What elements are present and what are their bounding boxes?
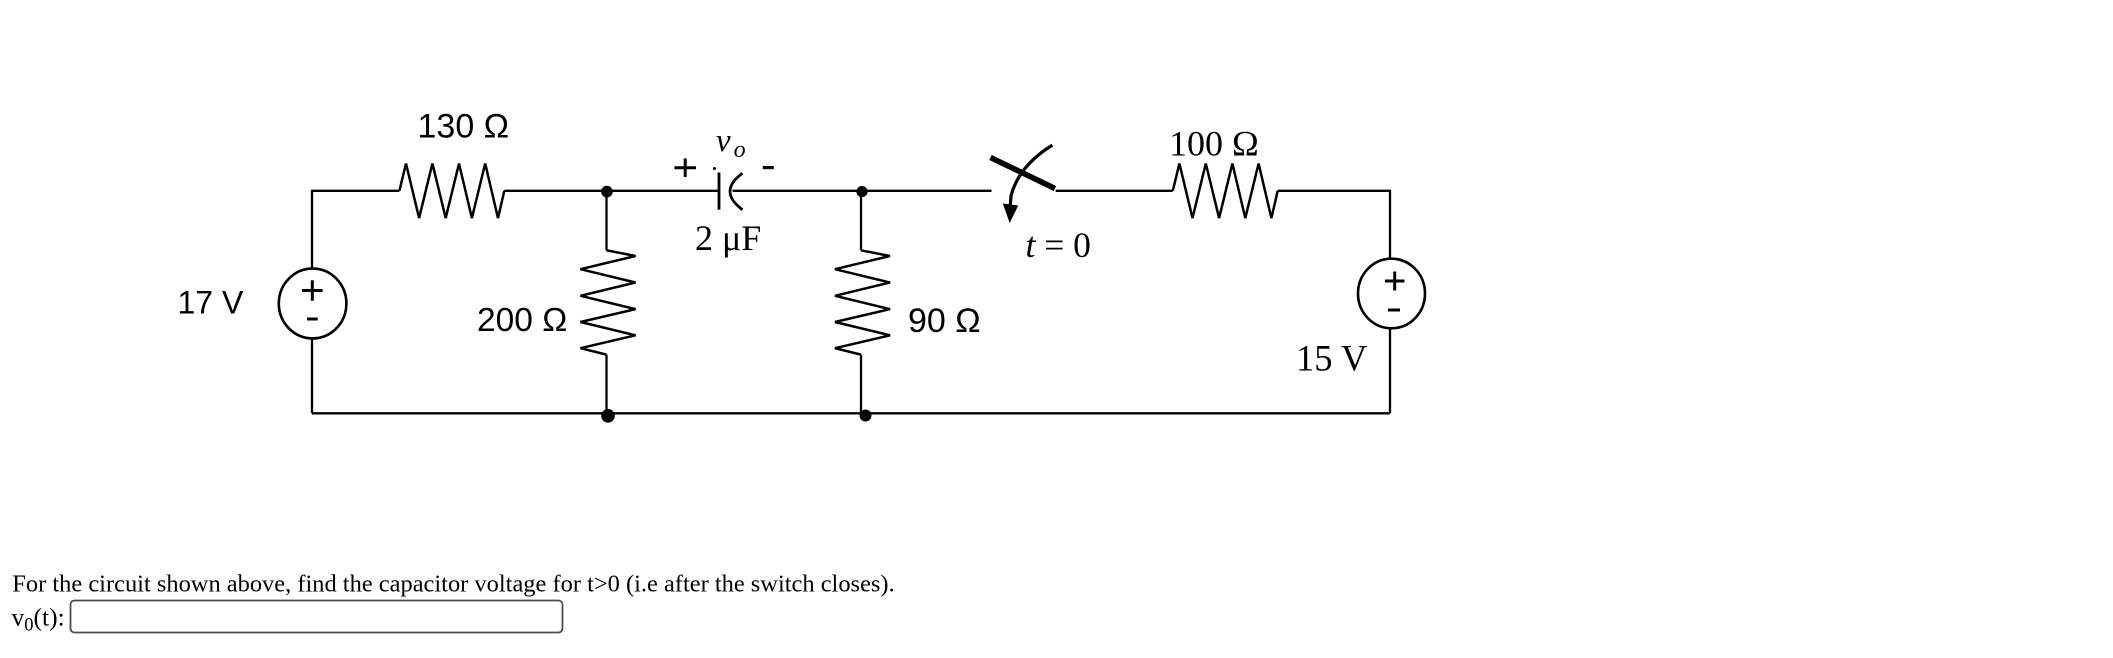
17V minus sign [307, 318, 318, 321]
17V plus sign [302, 280, 323, 300]
15V minus sign [1388, 309, 1400, 312]
wire R90 to bottom node D [860, 355, 862, 415]
svg-text:130 Ω: 130 Ω [418, 108, 510, 146]
answer input box [71, 601, 563, 633]
node B junction dot [856, 186, 867, 197]
wire R200 to bottom node C [605, 355, 607, 415]
node A junction dot [601, 186, 613, 198]
wire left side top (17V up to corner) [311, 190, 313, 269]
15V plus sign [1385, 272, 1405, 291]
capacitor C 2uF right curved plate [730, 173, 743, 210]
switch blade (open, thick) [991, 158, 1056, 189]
svg-text:200 Ω: 200 Ω [477, 302, 567, 339]
resistor R 130ohm [399, 164, 504, 219]
wire node A to capacitor left plate [607, 190, 720, 192]
switch arrowhead [1003, 204, 1019, 224]
capacitor plus polarity mark [674, 158, 696, 177]
svg-text:v0(t):: v0(t): [12, 603, 65, 636]
node C junction dot [601, 409, 615, 423]
wire 15V source to bottom-right corner [1389, 328, 1391, 413]
wire capacitor to node B [733, 190, 862, 192]
wire R100 to top-right corner [1278, 190, 1390, 192]
capacitor minus polarity mark [763, 166, 774, 169]
svg-text:2 μF: 2 μF [695, 218, 761, 258]
svg-text:15 V: 15 V [1296, 338, 1367, 379]
wire right side down to 15V source [1389, 190, 1391, 260]
stray dot near capacitor plus [713, 167, 716, 170]
wire switch to R100 [1056, 190, 1173, 192]
resistor R 200ohm vertical [581, 250, 636, 354]
svg-text:vo: vo [716, 123, 746, 163]
wire top-left horizontal [312, 190, 399, 192]
voltage source V1 17V circle [279, 269, 347, 339]
resistor R 100ohm [1173, 164, 1278, 219]
capacitor C 2uF left plate [718, 173, 721, 210]
wire node B down to R90 [860, 191, 862, 251]
switch closing arrow arc [1010, 145, 1052, 205]
svg-text:90 Ω: 90 Ω [908, 302, 981, 340]
resistor R 90ohm vertical [835, 250, 890, 354]
voltage source V2 15V circle [1358, 259, 1425, 329]
wire bottom horizontal [312, 412, 1390, 414]
svg-text:100 Ω: 100 Ω [1169, 124, 1259, 164]
wire top middle (R130 to node A) [504, 190, 606, 192]
wire node B to switch [861, 190, 992, 192]
wire left side bottom (17V to corner) [311, 338, 313, 413]
node D junction dot [860, 410, 872, 422]
svg-text:t = 0: t = 0 [1026, 225, 1091, 265]
wire node A down to R200 [605, 191, 607, 251]
svg-text:For the circuit shown above, f: For the circuit shown above, find the ca… [12, 571, 894, 598]
svg-text:17 V: 17 V [178, 284, 244, 320]
